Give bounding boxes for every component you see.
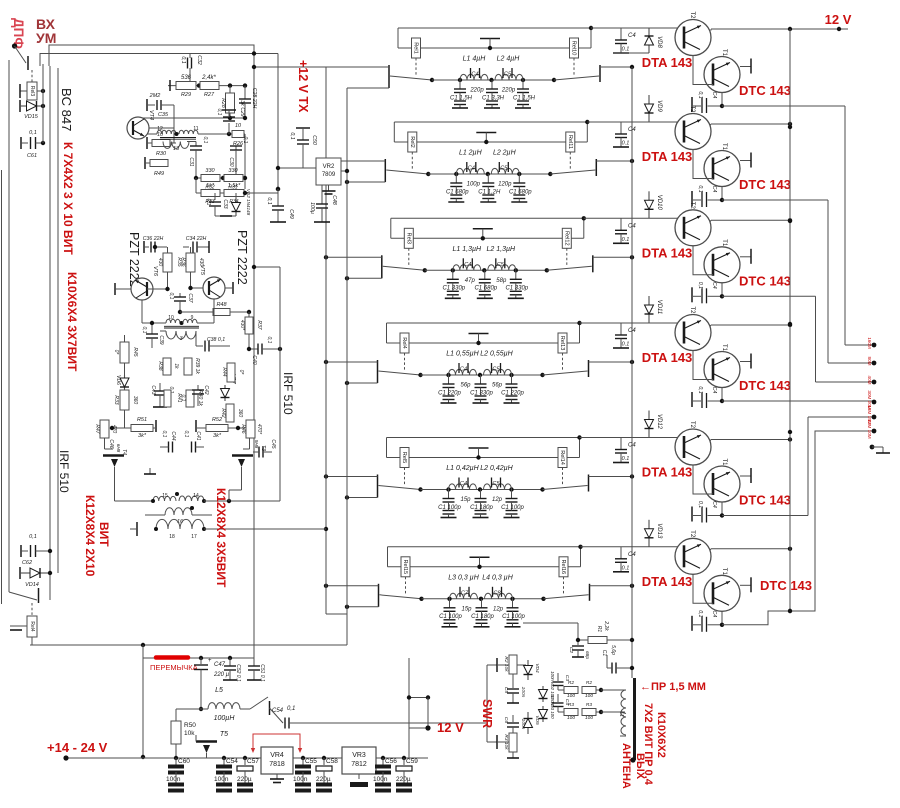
svg-text:C4: C4 [628, 33, 636, 39]
svg-text:C6: C6 [503, 717, 509, 723]
svg-text:360: 360 [237, 409, 243, 418]
svg-text:C48: C48 [331, 195, 337, 205]
svg-text:R39 1k: R39 1k [194, 358, 200, 374]
svg-text:C8: C8 [493, 590, 501, 596]
capacitor C5 100n [512, 683, 514, 688]
svg-text:C1 680p: C1 680p [509, 189, 532, 195]
svg-text:0,1: 0,1 [287, 706, 295, 712]
wire pair 2 base [684, 121, 686, 123]
svg-text:C41: C41 [195, 431, 201, 440]
svg-text:ПЕРЕМЫЧКА: ПЕРЕМЫЧКА [150, 663, 198, 672]
capacitor C33 0,1 [214, 193, 216, 200]
capacitor C29 0,1 [227, 132, 231, 136]
transistor T2 pair 4 [675, 315, 711, 351]
svg-text:C57: C57 [247, 758, 259, 765]
svg-text:56p: 56p [492, 383, 503, 389]
wire row 1 input [255, 66, 389, 68]
inductor L1 row 1 [460, 74, 488, 80]
capacitor C48 100µ [321, 185, 323, 204]
wire filter row 5 relay loop [387, 437, 580, 439]
svg-text:1k*: 1k* [206, 183, 215, 189]
capacitor C4 row 1 [470, 68, 472, 78]
svg-text:L2 0,42µH: L2 0,42µH [480, 465, 513, 472]
resistor R2 10k [487, 664, 497, 666]
svg-text:C4: C4 [628, 328, 636, 334]
node row 5 mid contact [469, 447, 489, 449]
capacitor C41 0,1 [191, 442, 193, 453]
svg-text:0,1: 0,1 [242, 137, 248, 144]
capacitor C1 1,2H row 2 [487, 174, 489, 183]
svg-text:VR4: VR4 [270, 752, 284, 759]
svg-text:VD11: VD11 [656, 300, 662, 315]
capacitor C5 row 1 [502, 68, 504, 78]
svg-text:VD15: VD15 [24, 114, 39, 120]
svg-text:1,5k*: 1,5k* [228, 183, 241, 189]
capacitor C52 0,1 [228, 656, 232, 660]
inductor L2 row 1 [495, 74, 523, 80]
capacitor C4 0,1 pair 6 [691, 616, 693, 631]
svg-text:SWR: SWR [480, 699, 494, 728]
svg-text:0.1: 0.1 [622, 237, 630, 243]
mosfet T3 IRF510 [249, 438, 251, 449]
svg-text:R1: R1 [596, 626, 602, 633]
svg-text:Rel16: Rel16 [560, 559, 566, 574]
wire top feed A [49, 45, 254, 658]
svg-text:ВЫХ: ВЫХ [634, 753, 646, 780]
svg-text:C4: C4 [711, 282, 717, 289]
svg-text:L1 0,42µH: L1 0,42µH [446, 465, 479, 472]
svg-text:T1: T1 [721, 458, 727, 466]
svg-text:Т4: Т4 [121, 449, 127, 455]
resistor R52 3k [195, 420, 197, 432]
svg-text:T2: T2 [689, 421, 695, 429]
wire pair 2 collector out [710, 124, 711, 126]
resistor R44 0 [227, 363, 235, 382]
wire 12VTX feed [277, 54, 279, 190]
svg-text:C2: C2 [568, 647, 574, 653]
inductor L1 row 5 [449, 484, 477, 490]
svg-text:T2: T2 [689, 530, 695, 538]
diode VD10 [648, 191, 650, 200]
svg-text:C1 330p: C1 330p [442, 286, 465, 292]
transistor T1 pair 6 [704, 575, 740, 611]
relay Rel16 [559, 557, 568, 577]
svg-text:VR3: VR3 [352, 752, 366, 759]
svg-text:220µ: 220µ [396, 776, 411, 783]
svg-text:0.1: 0.1 [622, 456, 630, 462]
wire pair 3 emitter contact [740, 256, 751, 258]
wire band 18M15M [722, 515, 808, 517]
svg-text:C1: C1 [601, 650, 607, 657]
diode VD9 [648, 95, 650, 104]
diode VD11 [648, 296, 650, 305]
wire row 5 filter line [421, 489, 543, 491]
svg-text:C1 330p: C1 330p [470, 390, 493, 396]
svg-text:DTC 143: DTC 143 [739, 83, 791, 98]
svg-text:11: 11 [193, 126, 198, 132]
svg-text:К10Х6Х2: К10Х6Х2 [655, 712, 667, 758]
wire row 5 output [589, 476, 633, 478]
svg-text:80M: 80M [867, 357, 872, 366]
resistor R3 100 [558, 711, 564, 713]
switch output relay [38, 588, 40, 603]
wire pair 2 interstage [693, 150, 713, 179]
wire pair 6 emitter contact [740, 584, 751, 586]
diode VD7 [224, 385, 226, 389]
svg-text:L1 1,3µH: L1 1,3µH [453, 246, 482, 253]
svg-text:12 V: 12 V [437, 720, 464, 735]
svg-text:C4: C4 [711, 501, 717, 508]
wire row 2 to driver [587, 121, 685, 123]
svg-text:10: 10 [168, 315, 174, 321]
svg-text:IRF 510: IRF 510 [57, 450, 71, 493]
svg-text:0,1: 0,1 [29, 130, 37, 136]
svg-text:15p: 15p [461, 606, 472, 612]
node row 3 mid contact [473, 228, 493, 230]
wire pair 1 interstage [693, 56, 713, 85]
svg-text:L2 0,55µH: L2 0,55µH [480, 351, 513, 358]
capacitor C1 180p row 6 [481, 599, 483, 608]
switch row 4 left contact [377, 360, 379, 383]
capacitor C4 0,1 pair 5 [691, 507, 693, 522]
svg-text:100n: 100n [166, 776, 181, 783]
svg-text:C1 680p: C1 680p [474, 286, 497, 292]
svg-text:5,6p: 5,6p [610, 645, 616, 655]
svg-text:VT5: VT5 [199, 265, 205, 276]
svg-text:0,1: 0,1 [202, 137, 208, 144]
capacitor C4 0,1 pair 2 [691, 191, 693, 206]
svg-text:C5: C5 [500, 166, 508, 172]
svg-text:0,1: 0,1 [183, 431, 189, 438]
wire filter row 1 relay loop [398, 27, 591, 29]
capacitor C39 0,1 [151, 323, 153, 334]
wire row 6 output [590, 585, 633, 587]
capacitor C1 1,5H row 1 [459, 80, 461, 89]
svg-text:R51: R51 [137, 417, 147, 423]
svg-text:R2: R2 [586, 680, 592, 686]
resistor R50 10k [175, 709, 177, 721]
svg-text:12: 12 [157, 126, 163, 132]
wire row 2 output [596, 160, 632, 162]
transistor T1 pair 4 [704, 352, 740, 388]
svg-text:R3 10k: R3 10k [503, 734, 509, 750]
transistor T2 pair 5 [675, 429, 711, 465]
svg-text:C1 100p: C1 100p [439, 614, 462, 620]
svg-text:360: 360 [132, 396, 138, 405]
svg-text:R2: R2 [568, 680, 574, 686]
svg-text:C42: C42 [203, 385, 209, 394]
transformer output link [165, 508, 192, 515]
capacitor C4 0,1 row 3 supply [620, 218, 622, 230]
capacitor C1 220p row 4 [511, 375, 513, 384]
capacitor C44 0,1 [168, 442, 170, 453]
ground Rel4 [10, 625, 22, 627]
svg-text:7812: 7812 [351, 761, 367, 768]
wire row 3 to driver [584, 217, 685, 219]
svg-text:VD9: VD9 [656, 100, 662, 112]
relay Rel11 [566, 132, 575, 152]
svg-text:T1: T1 [721, 344, 727, 352]
svg-text:15p: 15p [460, 497, 471, 503]
svg-text:C60: C60 [178, 758, 190, 765]
svg-text:0.1: 0.1 [622, 565, 630, 571]
transistor VT6 [131, 278, 153, 300]
transistor T2 pair 2 [675, 114, 711, 150]
svg-text:L3 0,3 µH: L3 0,3 µH [448, 574, 479, 581]
svg-text:R28: R28 [220, 98, 226, 108]
svg-text:58p: 58p [496, 278, 507, 284]
diode VD6 [124, 375, 126, 378]
capacitor C1 100p row 6 [512, 599, 514, 608]
wire input switch [15, 46, 27, 63]
resistor R27 2,4k [200, 82, 219, 90]
resistor R49 10 [144, 157, 146, 169]
wire pair 1 emitter contact [740, 66, 751, 68]
svg-text:C55: C55 [305, 758, 317, 765]
mosfet T4 IRF510 [104, 438, 106, 449]
svg-text:T5: T5 [220, 731, 228, 738]
wire row 5 input [326, 476, 378, 478]
wire jumper feed [142, 645, 144, 757]
inductor L1 row 2 [456, 168, 484, 174]
relay Rel3 [404, 228, 413, 248]
svg-text:T1: T1 [721, 239, 727, 247]
antenna line [633, 678, 636, 760]
capacitor C1 330p row 3 [515, 270, 517, 279]
capacitor C43 0,1 [159, 383, 161, 391]
transformer output secondary [156, 519, 204, 529]
svg-text:3k*: 3k* [138, 433, 147, 439]
wire pair 5 collector out [710, 440, 711, 442]
transformer T3 secondary [163, 142, 189, 149]
svg-text:100n: 100n [373, 776, 388, 783]
svg-text:C1 1,5H: C1 1,5H [513, 95, 536, 101]
diode VD5 [527, 712, 529, 719]
svg-text:C1 100p: C1 100p [502, 614, 525, 620]
svg-text:9Н8: 9Н8 [254, 440, 259, 449]
resistor R2 100 [558, 689, 564, 691]
resistor R40 1k [186, 390, 194, 407]
svg-text:К10Х6Х4 3Х7ВИТ: К10Х6Х4 3Х7ВИТ [65, 272, 79, 372]
capacitor C1 680p row 2 [455, 174, 457, 183]
switch row 6 right contact [589, 584, 591, 601]
relay Rel4 [400, 333, 409, 353]
svg-text:0.1: 0.1 [622, 342, 630, 348]
capacitor C1 3,3H row 1 [491, 80, 493, 89]
node band terminals [872, 343, 877, 348]
resistor R3 10k [487, 741, 497, 743]
svg-text:C4: C4 [628, 223, 636, 229]
wire row 1 to driver [591, 27, 685, 29]
relay Rel3 [27, 82, 37, 100]
svg-text:12 V: 12 V [825, 12, 852, 27]
svg-text:T2: T2 [689, 105, 695, 113]
svg-text:C7: C7 [461, 590, 469, 596]
svg-text:Rel3: Rel3 [29, 86, 35, 97]
svg-text:100n: 100n [214, 776, 229, 783]
svg-text:C54: C54 [226, 758, 238, 765]
svg-text:VD2 1N4148: VD2 1N4148 [246, 189, 251, 216]
svg-text:Rel15: Rel15 [402, 559, 408, 574]
resistor R2b 100 [582, 687, 596, 694]
svg-text:0,1: 0,1 [697, 185, 703, 192]
wire row1 input from driver [254, 66, 255, 68]
wire pair 1 base [684, 27, 686, 29]
capacitor C40 0,1 [249, 348, 258, 350]
wire pair 6 interstage [693, 574, 713, 603]
wire pair 4 base [684, 322, 686, 324]
svg-text:DTA 143: DTA 143 [642, 55, 693, 70]
wire top feed B [40, 54, 278, 67]
svg-text:100: 100 [585, 715, 593, 721]
svg-text:C40: C40 [251, 355, 257, 364]
svg-text:←ПР 1,5 ММ: ←ПР 1,5 ММ [640, 681, 706, 693]
svg-text:T2: T2 [689, 306, 695, 314]
svg-text:R38: R38 [157, 361, 163, 370]
capacitor C2 68p [577, 640, 579, 645]
svg-text:C1 180p: C1 180p [471, 614, 494, 620]
capacitor C1 220p row 4 [448, 375, 450, 384]
wire pair 6 base [684, 546, 686, 548]
node input [12, 43, 17, 48]
resistor R47 470 [100, 420, 109, 438]
relay Rel2 [408, 132, 417, 152]
svg-text:C4: C4 [468, 166, 475, 172]
jumper PEREMYCHKA [143, 657, 254, 659]
wire filter row 6 relay loop [388, 546, 581, 548]
svg-text:C1 1,5H: C1 1,5H [450, 95, 473, 101]
resistor R41 1k [164, 390, 171, 407]
svg-text:Rel4: Rel4 [29, 621, 35, 632]
capacitor C51 0,1 [253, 658, 255, 666]
capacitor C1 330p row 3 [452, 270, 454, 279]
capacitor C4 100n [557, 694, 559, 702]
svg-text:R3: R3 [586, 702, 592, 708]
svg-text:C56: C56 [385, 758, 397, 765]
svg-text:C1 100p: C1 100p [438, 505, 461, 511]
capacitor C5 row 5 [491, 478, 493, 488]
inductor L1 row 4 [449, 369, 477, 375]
capacitor C4 row 4 [458, 363, 460, 373]
wire pair 5 emitter contact [740, 475, 751, 477]
wire band 40M [722, 295, 816, 297]
svg-text:VT4: VT4 [148, 110, 154, 120]
svg-text:2,2k: 2,2k [603, 620, 609, 631]
svg-text:C1 220p: C1 220p [438, 390, 461, 396]
svg-text:C4: C4 [711, 92, 717, 99]
svg-text:0,1: 0,1 [168, 293, 174, 300]
resistor R34 1,5k [224, 190, 244, 197]
capacitor C1 100p row 5 [448, 490, 450, 499]
diode VD14 [19, 567, 21, 579]
svg-text:DTA 143: DTA 143 [642, 149, 693, 164]
svg-text:430*: 430* [239, 320, 245, 331]
inductor L2 row 3 [488, 265, 516, 271]
svg-text:Rel3: Rel3 [405, 233, 411, 245]
relay Rel4 [27, 616, 37, 637]
wire R26 to R34 [244, 134, 246, 189]
relay Rel12 [562, 228, 571, 248]
svg-text:0,1: 0,1 [161, 431, 167, 438]
svg-text:Rel13: Rel13 [559, 336, 565, 351]
switch row 2 right contact [595, 159, 597, 176]
diode VD 1N4148 [235, 193, 237, 198]
inductor L2 row 2 [491, 168, 519, 174]
svg-text:C5: C5 [503, 687, 509, 693]
svg-text:R29: R29 [181, 92, 191, 98]
svg-text:9: 9 [191, 315, 194, 321]
svg-text:0,1: 0,1 [180, 395, 186, 402]
svg-text:R36: R36 [180, 257, 186, 266]
svg-text:Rel1: Rel1 [413, 42, 419, 54]
svg-text:C1 180p: C1 180p [470, 505, 493, 511]
svg-text:DTA 143: DTA 143 [642, 574, 693, 589]
svg-text:C43: C43 [150, 385, 156, 394]
ground terminal [870, 445, 875, 450]
svg-text:DTC 143: DTC 143 [739, 493, 791, 508]
transformer output primary [145, 500, 153, 502]
svg-text:DTC 143: DTC 143 [739, 273, 791, 288]
wire pair 3 interstage [693, 246, 713, 275]
svg-text:C58: C58 [326, 758, 338, 765]
capacitor C4 row 3 [462, 258, 464, 268]
svg-text:C4: C4 [711, 387, 717, 394]
inductor L2 row 4 [484, 369, 512, 375]
diode VD8 [648, 28, 650, 36]
diode VD15 [19, 100, 21, 112]
svg-text:Rel2: Rel2 [409, 136, 415, 148]
svg-text:220p: 220p [469, 88, 484, 94]
capacitor C30 0,1 [235, 146, 237, 150]
relay Rel10 [570, 38, 579, 58]
svg-text:C1 220p: C1 220p [501, 390, 524, 396]
svg-text:330: 330 [228, 168, 238, 174]
capacitor C6 100n [512, 715, 514, 722]
svg-text:C33: C33 [222, 199, 228, 208]
capacitor C4 0,1 row 4 supply [620, 323, 622, 335]
resistor R51 3k [112, 427, 131, 429]
svg-text:C46: C46 [108, 439, 114, 448]
svg-text:VD5: VD5 [534, 715, 540, 725]
capacitor C1 1,5H row 1 [522, 80, 524, 89]
capacitor C37 0,1 [179, 293, 181, 297]
inductor L4 row 6 [485, 593, 513, 599]
svg-text:АНТЕНА: АНТЕНА [620, 743, 632, 789]
svg-text:C5: C5 [504, 72, 512, 78]
wire 12V out [408, 658, 410, 758]
node row 2 mid contact [476, 132, 496, 134]
svg-text:0,1: 0,1 [697, 282, 703, 289]
wire band 12M10M [722, 431, 874, 625]
svg-text:100: 100 [585, 693, 593, 699]
wire SWR feed [486, 665, 488, 742]
svg-text:0,1: 0,1 [697, 610, 703, 617]
capacitor C49 0,1 [277, 189, 279, 206]
diode VD4 [517, 664, 526, 666]
transformer T2 primary [141, 300, 143, 323]
svg-text:T2: T2 [689, 11, 695, 19]
capacitor C50 0,1 [296, 127, 310, 129]
svg-text:100µ: 100µ [309, 202, 315, 214]
svg-text:C35: C35 [158, 112, 169, 118]
svg-text:6Н8: 6Н8 [116, 444, 121, 453]
svg-text:DTA 143: DTA 143 [642, 350, 693, 365]
resistor R3b 100 [582, 709, 596, 716]
svg-text:DTA 143: DTA 143 [642, 465, 693, 480]
svg-text:0.1: 0.1 [622, 141, 630, 147]
svg-text:L4 0,3 µH: L4 0,3 µH [482, 574, 513, 581]
wire row 4 output [589, 361, 633, 363]
